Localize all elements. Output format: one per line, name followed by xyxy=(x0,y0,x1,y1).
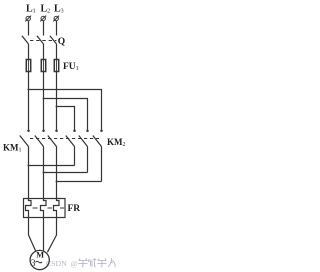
svg-text:FR: FR xyxy=(68,204,81,214)
junction branch L3 xyxy=(56,106,58,108)
relay FR box xyxy=(24,199,66,218)
relay FR label xyxy=(68,204,81,214)
contactor KM1 label xyxy=(3,143,22,154)
wire L3 to switch xyxy=(56,21,58,36)
wire Q2 to fuse 2 xyxy=(43,44,45,60)
contactor KM1 pole 2 xyxy=(35,130,45,147)
junction link C xyxy=(56,181,58,183)
switch Q pole 2 blade xyxy=(37,36,44,44)
motor M circle xyxy=(30,250,49,269)
terminal L1 xyxy=(25,16,31,22)
fuse FU1 element c xyxy=(54,60,58,72)
wire KM1 pole1 down xyxy=(28,147,30,199)
wire link KM2-2 to phase B xyxy=(44,172,88,174)
junction branch L1 xyxy=(28,89,30,91)
svg-text:L1: L1 xyxy=(26,4,36,15)
terminal L2 xyxy=(40,16,46,22)
fuse FU1 element a xyxy=(26,60,30,72)
relay FR internal linkage dashes xyxy=(33,207,65,209)
motor M label xyxy=(31,250,44,269)
switch Q linkage dashed xyxy=(30,40,57,42)
wire link KM2-3 to phase C xyxy=(57,181,102,183)
wire KM1 pole2 down xyxy=(43,147,45,199)
svg-text:Q: Q xyxy=(58,37,65,47)
fuse FU1 label xyxy=(63,62,79,72)
svg-text:3: 3 xyxy=(31,259,36,269)
wire branch L3 to KM2 left xyxy=(57,107,75,131)
contactor KM1 pole 3 xyxy=(48,130,58,147)
wire phase A main column xyxy=(28,72,30,131)
junction link B xyxy=(43,172,45,174)
switch Q pole 3 blade xyxy=(50,36,57,44)
svg-text:M: M xyxy=(36,250,44,259)
switch Q label xyxy=(58,37,65,47)
wire branch L1 to KM2 right xyxy=(29,90,102,131)
svg-text:L2: L2 xyxy=(41,4,51,15)
fuse FU1 element b xyxy=(41,60,45,72)
contactor KM1 pole 1 xyxy=(20,130,30,147)
wire link KM2-1 to phase A xyxy=(29,165,75,167)
relay FR heater 2 xyxy=(41,199,47,218)
svg-text:FU1: FU1 xyxy=(63,62,79,72)
wire FR to motor phase B xyxy=(43,218,45,251)
contactor KM2 pole 3 xyxy=(93,130,103,147)
terminal L3 xyxy=(53,16,59,22)
junction branch L2 xyxy=(43,98,45,100)
wire KM2 pole3 down xyxy=(101,147,103,182)
wire phase C main column xyxy=(56,72,58,131)
junction link A xyxy=(28,165,30,167)
watermark CSDN xyxy=(46,259,78,268)
svg-text:@: @ xyxy=(71,259,78,268)
contactor KM2 pole 1 xyxy=(66,130,76,147)
contactor linkage dashed xyxy=(30,138,99,140)
motor 3~ tilde xyxy=(35,261,42,262)
svg-text:KM1: KM1 xyxy=(3,143,22,154)
relay FR heater 3 xyxy=(54,199,60,218)
wire KM2 pole2 down xyxy=(87,147,89,173)
relay FR heater 1 xyxy=(26,199,32,218)
node L2 label xyxy=(41,4,51,15)
wire L2 to switch xyxy=(43,21,45,36)
wire KM1 pole3 down xyxy=(56,147,58,199)
wire branch L2 to KM2 middle xyxy=(44,99,88,131)
watermark hanzi (approximated strokes) xyxy=(79,258,116,267)
svg-text:KM2: KM2 xyxy=(107,137,126,148)
contactor KM2 pole 2 xyxy=(79,130,89,147)
contactor KM2 label xyxy=(107,137,126,148)
wire L1 to switch xyxy=(28,21,30,36)
wire KM2 pole1 down xyxy=(74,147,76,166)
node L1 label xyxy=(26,4,36,15)
node L3 label xyxy=(54,4,64,15)
wire phase B main column xyxy=(43,72,45,131)
wire Q1 to fuse 1 xyxy=(28,44,30,60)
switch Q pole 1 blade xyxy=(22,36,29,44)
svg-text:L3: L3 xyxy=(54,4,64,15)
wire FR to motor phase C xyxy=(47,218,56,253)
wire Q3 to fuse 3 xyxy=(56,44,58,60)
wire FR to motor phase A xyxy=(29,218,37,252)
